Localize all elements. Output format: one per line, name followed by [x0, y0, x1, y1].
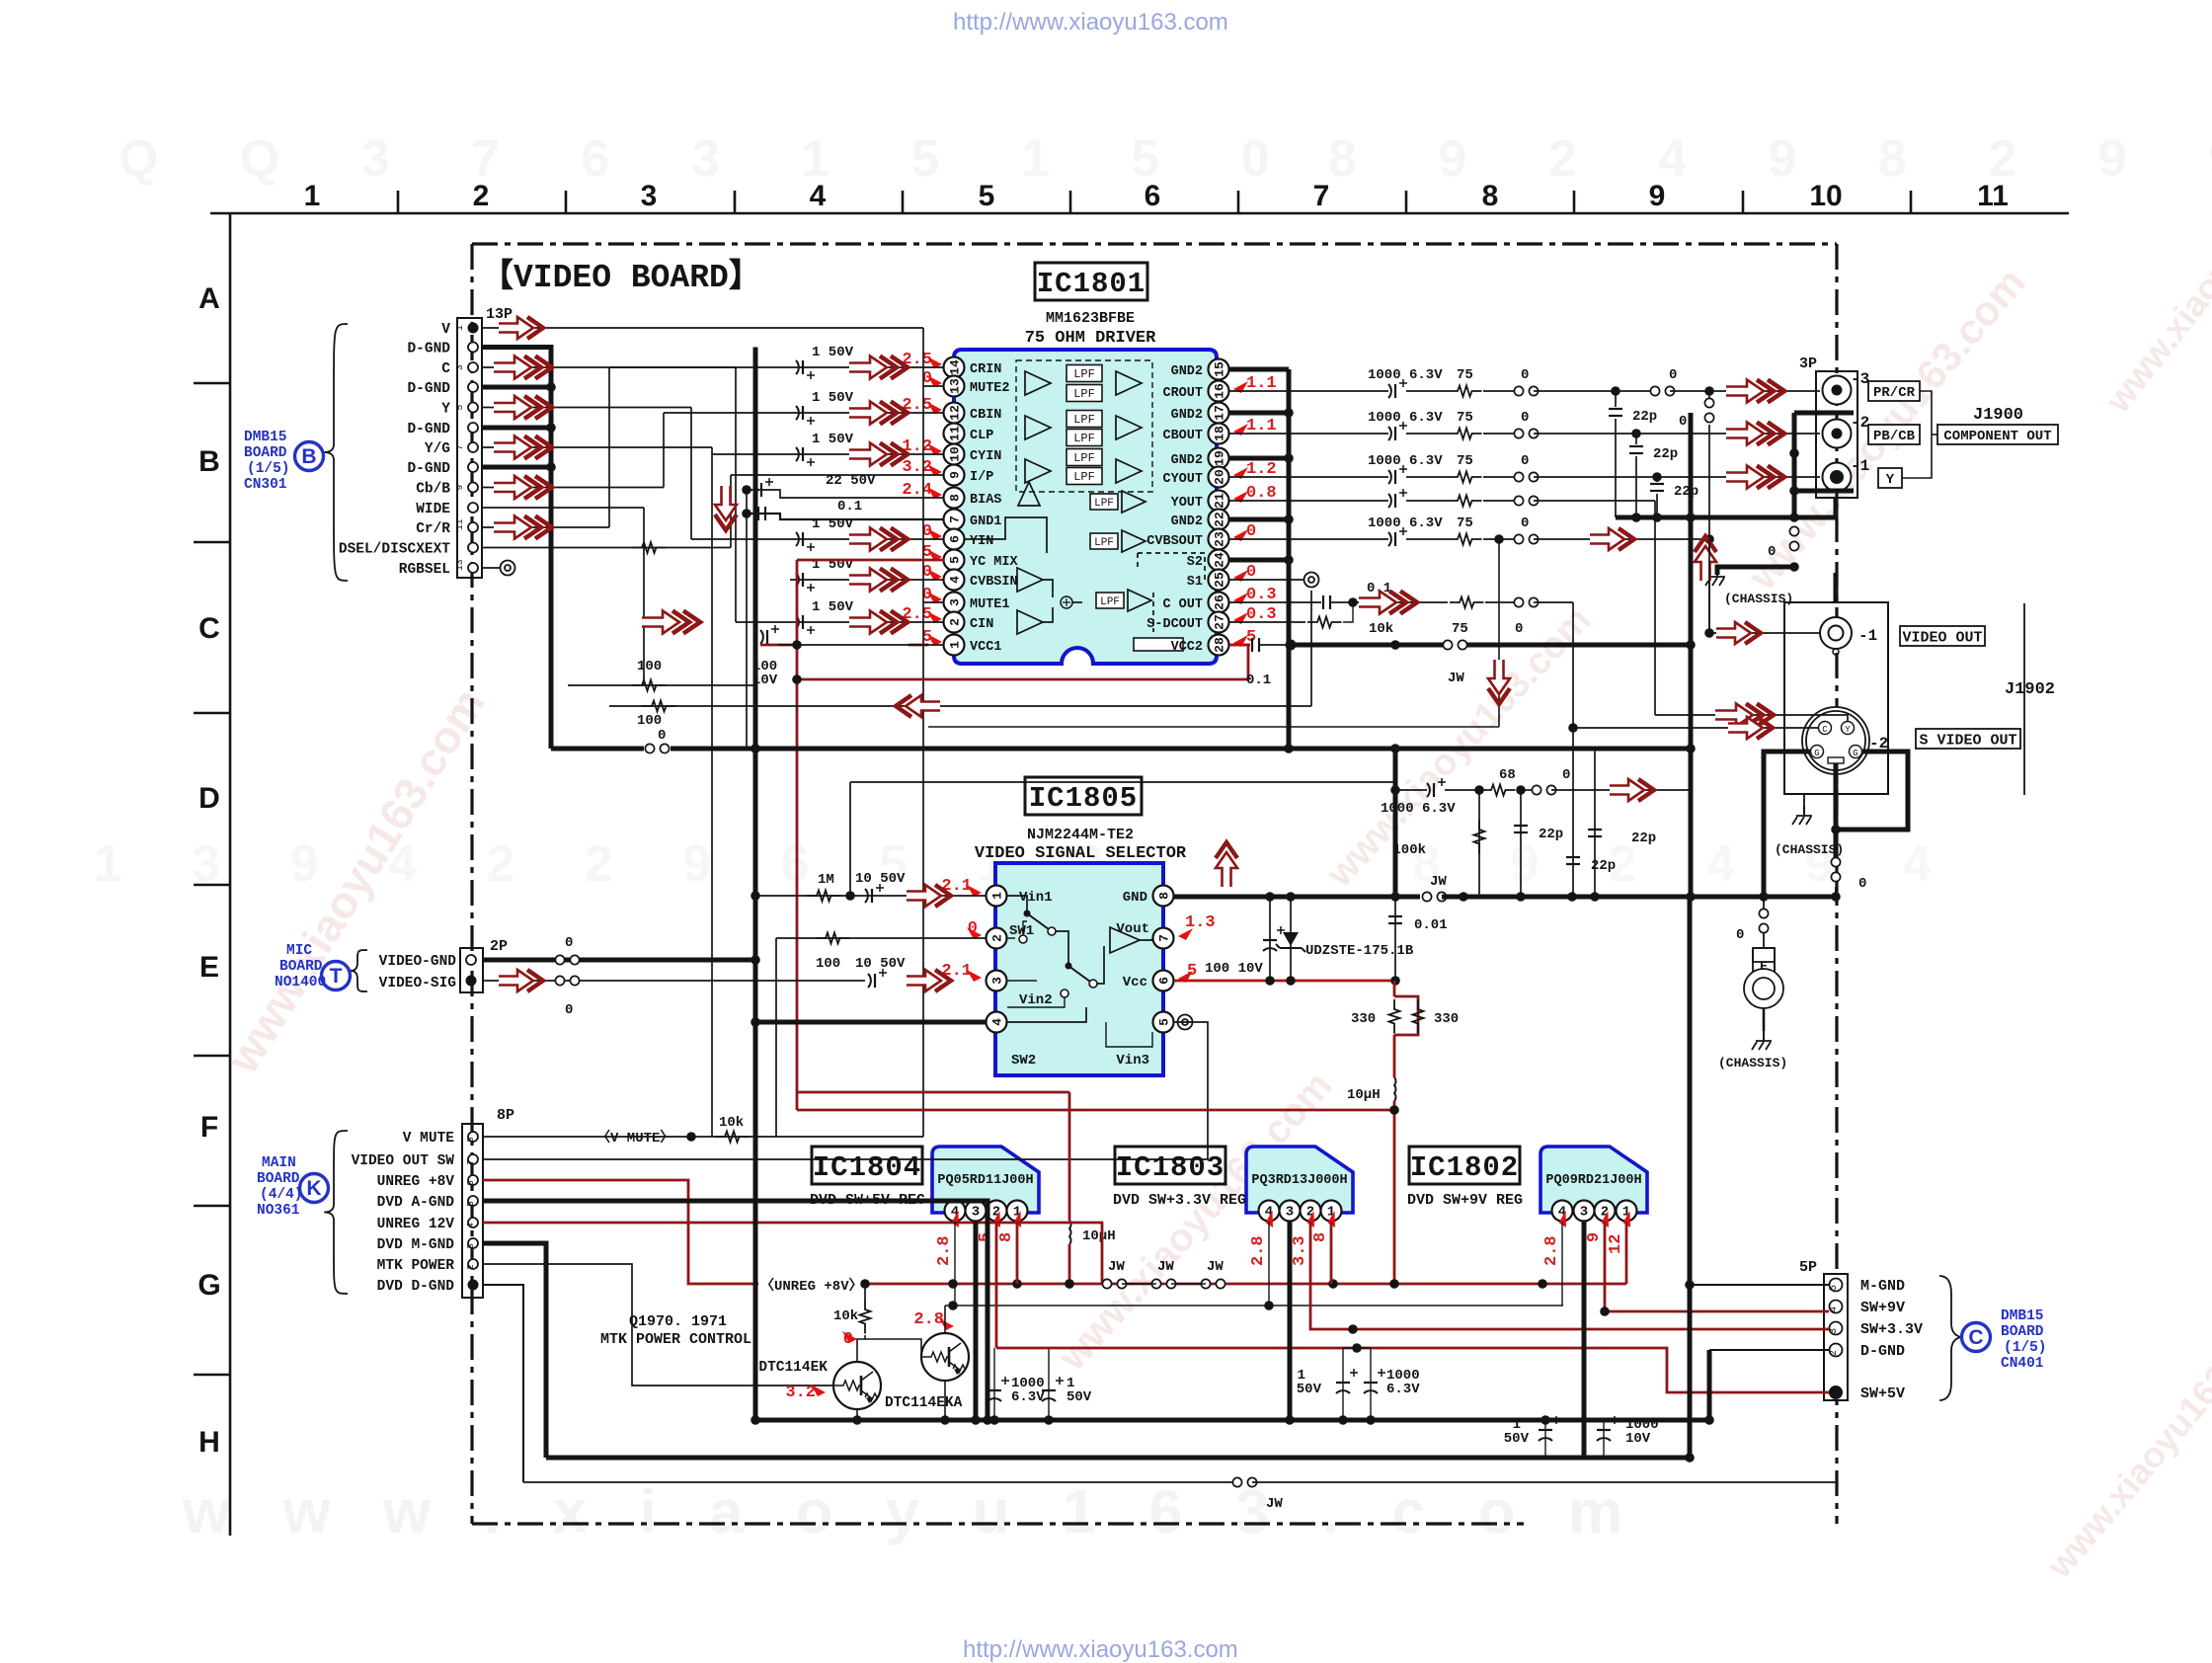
wire bias caps join [746, 490, 748, 519]
svg-text:BIAS: BIAS [970, 493, 1001, 508]
svg-text:7: 7 [948, 515, 963, 523]
chassis ground 3P [1705, 567, 1725, 586]
connector CN401 5P box [1824, 1274, 1848, 1400]
arrow COUT svideo [1728, 717, 1773, 739]
junction 22p bus d [1789, 513, 1799, 522]
wire Vcc red b [1394, 979, 1395, 982]
arrow into pin row 418 [849, 402, 908, 425]
jumper 0 row 758 [645, 744, 669, 752]
wire vin1 up [849, 782, 851, 896]
resistor 1M [807, 891, 841, 902]
svg-text:0: 0 [1679, 414, 1687, 430]
svg-text:100 10V: 100 10V [1205, 961, 1263, 977]
IC1805 switch1 [1024, 911, 1031, 917]
resistor 75 COUT [1450, 597, 1484, 608]
wedge 0 q [842, 1331, 857, 1343]
wire pin5 bullseye [483, 1022, 1208, 1159]
IC1802 pin value wedge 9 [1598, 1211, 1616, 1229]
svg-text:SW+9V: SW+9V [1860, 1300, 1905, 1316]
junction cap1803a [1338, 1415, 1348, 1425]
svg-text:〈V MUTE〉: 〈V MUTE〉 [596, 1130, 673, 1147]
svg-text:B: B [198, 445, 220, 478]
svg-text:C: C [198, 612, 220, 645]
svg-text:BOARD: BOARD [257, 1171, 300, 1187]
wire DSEL to pin9 [731, 474, 944, 476]
resistor 100 b [642, 701, 676, 712]
IC1801 pin 11 [944, 424, 965, 444]
IC1805 pin 3 [987, 971, 1007, 991]
wire YOUT cont [1534, 500, 1655, 502]
wire 3P gnd bus [1792, 413, 1797, 517]
maroon 8P UNREG+8V [483, 1180, 758, 1284]
IC1805 vout wire [1140, 938, 1152, 940]
junction 758 b [1284, 744, 1294, 753]
jumper JW 908 [1422, 892, 1446, 901]
IC1801 pin 3 wedge [927, 592, 942, 603]
IC1803 label box [1115, 1147, 1225, 1184]
wire WIDE vertical [643, 508, 645, 685]
8P pin 5 [468, 1196, 478, 1206]
svg-text:5: 5 [948, 556, 963, 564]
IC1801 pin 27 [1209, 612, 1229, 633]
IC1805 pin1 wedge [967, 885, 982, 897]
J1900 bracket wire [1902, 391, 1932, 478]
svg-text:4: 4 [948, 576, 963, 584]
wire cap row 546 [790, 538, 944, 540]
wire Y to cap [691, 538, 790, 540]
label VIDEO OUT [1900, 626, 1985, 646]
svg-text:8: 8 [1482, 180, 1499, 212]
junction 22p bus a [1631, 513, 1641, 522]
wire Y/G vertical [711, 447, 713, 454]
junction 908 x1786 [1759, 892, 1769, 902]
label COMPONENT OUT [1937, 425, 2058, 444]
wire SDC up [1343, 602, 1353, 622]
wire out row 483 c [1483, 476, 1514, 478]
svg-text:BOARD: BOARD [2001, 1324, 2044, 1340]
capacitor 100 10V mid [1263, 926, 1285, 951]
wire MUTE2 stub [923, 385, 944, 387]
svg-text:MTK POWER: MTK POWER [377, 1258, 455, 1274]
svg-text:MUTE1: MUTE1 [970, 597, 1010, 612]
wire cap row 587 [790, 579, 944, 581]
wire IC1804 pin3 drop [974, 1222, 979, 1420]
wire GND1 cap [747, 514, 944, 519]
wire 10uH down [1393, 1101, 1396, 1284]
junction 758 a [750, 744, 760, 753]
arrow vin1 [907, 885, 951, 907]
8P pin 6 [468, 1175, 478, 1185]
IC1801 LPF box b1 [1066, 430, 1102, 446]
svg-text:WIDE: WIDE [416, 502, 450, 517]
svg-text:NO361: NO361 [257, 1203, 300, 1219]
junction video vertical b [750, 744, 760, 753]
ruler left line [229, 213, 232, 1536]
IC1801 pin 20 wedge [1233, 467, 1248, 479]
svg-text:330: 330 [1351, 1011, 1376, 1027]
svg-text:IC1801: IC1801 [1037, 268, 1145, 300]
IC1802 label box [1409, 1147, 1520, 1184]
svg-text:UNREG +8V: UNREG +8V [377, 1174, 455, 1190]
wire VCC2 row c [1466, 643, 1691, 648]
svg-text:0: 0 [1669, 367, 1677, 383]
junction vcc red b [1286, 976, 1296, 986]
svg-text:V MUTE: V MUTE [403, 1131, 455, 1147]
junction sw2 [750, 1017, 760, 1027]
wire out row 439 c [1483, 433, 1514, 435]
wire row 800 c [1517, 789, 1533, 791]
junction 3P gnd b [1789, 486, 1799, 496]
arrow up 1242 [1216, 842, 1237, 887]
ruler column tick 4 [902, 191, 905, 213]
13P pin 1 [468, 323, 479, 334]
svg-text:D-GND: D-GND [407, 381, 450, 397]
wire IC1802 pin4 drop [1561, 1222, 1563, 1306]
IC1801 pin 14 [944, 357, 965, 378]
jumper 0 comp [1704, 398, 1713, 422]
IC1805 vout amp [1110, 927, 1140, 953]
wire S1 drop [1310, 591, 1312, 706]
junction UNREG x1412 [1389, 1279, 1399, 1289]
IC1801 pin 23 wedge [1233, 529, 1248, 541]
svg-text:VIDEO-GND: VIDEO-GND [379, 954, 457, 970]
svg-text:50V: 50V [1297, 1382, 1322, 1397]
13P brace [324, 324, 348, 581]
junction GND2 567 [1284, 555, 1294, 565]
resistor 10k SDC [1307, 617, 1342, 628]
circled K [300, 1174, 329, 1203]
svg-text:Y/G: Y/G [425, 441, 450, 457]
E chassis terminal [1744, 948, 1783, 1008]
IC1801 amp COUT [1128, 590, 1151, 611]
wire BIAS [747, 490, 944, 498]
svg-text:GND2: GND2 [1171, 408, 1203, 423]
IC1805 sw2 internal [1007, 1007, 1086, 1022]
IC1803 pin 4 [1259, 1201, 1280, 1222]
svg-text:5: 5 [465, 1201, 476, 1207]
8P pin 1 [468, 1280, 479, 1291]
capacitor VCC2 [1252, 638, 1259, 652]
IC1801 pin 25 [1209, 570, 1229, 591]
arrow V row [499, 317, 543, 339]
svg-text:MUTE2: MUTE2 [970, 381, 1010, 396]
label Y [1878, 468, 1902, 488]
resistor 100 a [632, 680, 667, 691]
wire CBOUT cont [1534, 433, 1820, 435]
junction CVBS [1704, 628, 1714, 638]
5P pin 2 [1830, 1344, 1843, 1357]
wire S-DCOUT [1229, 621, 1305, 623]
junction COUT svideo [1568, 723, 1578, 733]
svg-text:D: D [198, 782, 220, 815]
svg-text:1 50V: 1 50V [812, 345, 854, 360]
J1902 bracket [2023, 603, 2025, 795]
wire out row 507 c [1483, 500, 1514, 502]
wire 22p bus [1616, 515, 1837, 520]
svg-text:BOARD: BOARD [279, 959, 323, 975]
svg-text:0: 0 [1521, 453, 1529, 469]
svg-text:IC1805: IC1805 [1029, 782, 1138, 815]
wire svideo top [1834, 573, 1839, 602]
svg-text:w w w . x i a o y u 1 6 3 . c: w w w . x i a o y u 1 6 3 . c o m [182, 1478, 1640, 1546]
IC1801 pin 8 wedge [927, 487, 942, 499]
svg-text:JW: JW [1207, 1259, 1224, 1275]
junction sw9 [1600, 1307, 1610, 1316]
IC1801 amp BIAS [1018, 482, 1040, 506]
wire 22p top 1 [1635, 434, 1637, 444]
IC1801 pin 16 [1209, 381, 1229, 402]
3P RCA jack -1 [1823, 463, 1852, 492]
arrow Y row [494, 396, 552, 419]
wire 100 row b [609, 705, 1311, 707]
svg-text:DVD SW+9V REG: DVD SW+9V REG [1407, 1192, 1523, 1209]
wire CVBS to jack [1709, 632, 1820, 634]
svg-text:50V: 50V [1504, 1431, 1530, 1447]
svg-text:4: 4 [990, 1018, 1005, 1026]
S1 test point [1304, 573, 1319, 588]
IC1801 pin 9 [944, 465, 965, 486]
IC1805 switch2 [1066, 963, 1072, 970]
arrow CYOUT [1726, 466, 1784, 489]
wire out row 396 b [1406, 390, 1448, 392]
arrow into pin row 630 [849, 611, 908, 634]
wire DSEL [482, 547, 731, 549]
IC1801 pin 22 [1209, 510, 1229, 530]
svg-text:〈UNREG +8V〉: 〈UNREG +8V〉 [760, 1278, 863, 1295]
svg-text:2.8: 2.8 [1542, 1235, 1561, 1266]
svg-text:22p: 22p [1653, 446, 1678, 462]
GND bus row 908 b [1442, 895, 1837, 900]
wire 3P box drop [1834, 498, 1839, 517]
IC1801 body [954, 350, 1217, 664]
IC1803 pin 1 [1321, 1201, 1342, 1222]
svg-text:JW: JW [1266, 1496, 1283, 1512]
svg-text:2: 2 [473, 180, 490, 212]
wire YC MIX maroon [797, 559, 944, 562]
jumper 0 row800 [1532, 785, 1555, 794]
capacitor 1000 6.3V row800 [1427, 778, 1446, 797]
capacitor 1uF row 418 [796, 406, 815, 425]
wire V MUTE [483, 1136, 923, 1138]
IC1801 pin 7 [944, 510, 965, 530]
wire GND row 758 right [1395, 747, 1691, 752]
wire YOUT to svideo [1655, 715, 1848, 722]
svg-text:Cb/B: Cb/B [416, 482, 450, 498]
junction 908 x1859 [1831, 892, 1841, 902]
maroon IC1803 pin2 drop [1310, 1222, 1829, 1329]
IC1801 pin 26 [1209, 593, 1229, 613]
svg-text:MM1623BFBE: MM1623BFBE [1046, 310, 1135, 327]
board border right [1835, 244, 1838, 1524]
svg-text:LPF: LPF [1073, 387, 1095, 401]
chassis ground top right [1792, 806, 1812, 825]
maroon v 1083 [1068, 1092, 1071, 1221]
5P pin 5 [1830, 1279, 1843, 1292]
svg-text:6: 6 [1145, 180, 1161, 212]
svg-text:68: 68 [1499, 767, 1516, 783]
IC1801 pin 17 [1209, 403, 1229, 424]
capacitor 1 50V 1804 [1042, 1377, 1064, 1401]
svg-text:10μH: 10μH [1082, 1228, 1116, 1244]
svg-text:100: 100 [816, 956, 840, 972]
wire svideo center [1834, 763, 1839, 857]
wire IC1803 pin3 drop [1288, 1222, 1293, 1420]
13P pin 9 [468, 483, 478, 493]
capacitor 10 50V vin1 [865, 884, 884, 903]
13P pin 3 [468, 362, 478, 372]
wire bias caps down [746, 519, 748, 749]
svg-text:1 50V: 1 50V [812, 390, 854, 406]
IC1801 LPF COUT [1096, 593, 1124, 608]
wire CVBSOUT cont [1534, 538, 1709, 540]
svg-text:UDZSTE-175.1B: UDZSTE-175.1B [1305, 943, 1414, 959]
wire 3P gnd stub a [1794, 411, 1854, 416]
IC1801 pin 4 wedge [927, 569, 942, 581]
IC1801 pin 1 [944, 635, 965, 656]
resistor DSEL [632, 542, 667, 553]
ruler column tick 5 [1069, 191, 1072, 213]
svg-text:8: 8 [1157, 892, 1172, 900]
IC1804 body [932, 1147, 1039, 1213]
svg-text:PR/CR: PR/CR [1873, 385, 1916, 401]
8P pin 7 [468, 1154, 478, 1164]
svg-text:G: G [1814, 749, 1819, 758]
IC1802 pin value wedge 12 [1619, 1211, 1637, 1229]
board border left [470, 244, 473, 1524]
svg-text:JW: JW [1108, 1259, 1125, 1275]
video out RCA jack [1820, 617, 1852, 655]
svg-text:10k: 10k [1369, 621, 1393, 637]
wire 330 down [1393, 1035, 1396, 1077]
wire q2 emitter [944, 1381, 946, 1420]
junction CROUT a [1611, 386, 1620, 396]
svg-text:LPF: LPF [1073, 413, 1095, 427]
svg-text:S-DCOUT: S-DCOUT [1146, 617, 1203, 632]
IC1801 input amp row 433 [1025, 416, 1051, 439]
svg-text:BOARD: BOARD [244, 445, 287, 461]
wire D-GND pin 392 [482, 385, 551, 390]
ruler column tick 10 [1910, 191, 1913, 213]
junction 908 x1615 [1590, 892, 1600, 902]
wire GND2 pin row 464 [1229, 456, 1289, 461]
resistor 75 row 507 [1448, 496, 1482, 507]
wire VIDEO-GND [483, 958, 755, 963]
wire 22p bottom 2 [1656, 494, 1658, 517]
svg-text:11: 11 [1977, 180, 2009, 212]
capacitor 1000 row 396 [1388, 379, 1407, 398]
IC1805 pin6 wedge [1178, 971, 1193, 983]
capacitor 0.01 [1388, 916, 1402, 923]
wire YOUT vertical [1654, 501, 1656, 715]
svg-text:S1: S1 [1187, 575, 1203, 590]
IC1804 pin value wedge 2.8 [948, 1211, 966, 1229]
wire cap100 vertical [1269, 897, 1271, 980]
svg-text:H: H [198, 1426, 220, 1459]
svg-text:1000 6.3V: 1000 6.3V [1381, 801, 1456, 817]
svg-text:10V: 10V [1625, 1431, 1651, 1447]
capacitor 1uF row 546 [796, 532, 815, 551]
capacitor 1000 6.3V 1803 [1364, 1369, 1385, 1393]
wire out row 483 b [1406, 476, 1448, 478]
capacitor 1000 row 507 [1388, 489, 1407, 508]
junction video vertical [750, 955, 760, 965]
wire q2 collector [944, 1306, 946, 1333]
IC1801 pin 15 [1209, 359, 1229, 380]
junction IC1804 pin3 [971, 1415, 981, 1425]
svg-text:J1902: J1902 [2005, 680, 2055, 699]
capacitor 1uF row 630 [796, 615, 815, 634]
svg-text:100: 100 [637, 713, 662, 729]
svg-text:CYOUT: CYOUT [1162, 472, 1203, 487]
svg-text:LPF: LPF [1073, 451, 1095, 465]
IC1801 pin 13 [944, 376, 965, 397]
arrow left row b [896, 695, 940, 717]
IC1801 pin 6 [944, 529, 965, 550]
IC1801 pin 12 wedge [927, 402, 942, 414]
IC1801 pin 16 wedge [1233, 381, 1248, 393]
svg-text:1M: 1M [818, 872, 834, 888]
junction mgnd b [1685, 1453, 1695, 1463]
svg-text:E: E [199, 951, 219, 984]
svg-text:7: 7 [1157, 934, 1172, 942]
IC1801 internal dashed box [1016, 360, 1152, 492]
IC1801 mixer node [1061, 596, 1072, 608]
8P brace [324, 1131, 348, 1294]
5P brace [1939, 1276, 1961, 1400]
jumper 0 COUT [1514, 597, 1538, 606]
wire row 800 d [1551, 789, 1691, 791]
IC1801 output amp row 388 [1116, 371, 1142, 395]
svg-text:13P: 13P [486, 306, 513, 323]
wire svideo chassis stub [1803, 794, 1805, 814]
connector NO361 8P box [462, 1124, 483, 1298]
svg-text:330: 330 [1434, 1011, 1459, 1027]
junction q2 emitter [940, 1415, 950, 1425]
svg-text:22p: 22p [1539, 827, 1563, 842]
wire cap 1802b [1603, 1420, 1605, 1458]
13P pin 11 [468, 522, 478, 532]
jumper JW mid 1 [1151, 1279, 1175, 1288]
svg-text:5: 5 [454, 405, 465, 411]
maroon IC1802 pin1 drop [1625, 1222, 1628, 1284]
connector NO1400 2P box [460, 948, 483, 992]
svg-text:1000 6.3V: 1000 6.3V [1368, 515, 1443, 531]
jumper JW VCC2 [1443, 640, 1466, 649]
svg-text:10k: 10k [833, 1308, 858, 1324]
svg-text:0: 0 [1521, 410, 1529, 426]
IC1805 pin 4 [987, 1012, 1007, 1033]
8P pin 3 [468, 1238, 478, 1248]
wire GND2 pin row 567 [1229, 558, 1289, 563]
IC1805 pin 7 [1153, 928, 1174, 949]
ruler column tick 9 [1742, 191, 1745, 213]
junction D-GND 473 [546, 462, 556, 472]
wire D-GND bus [482, 348, 551, 750]
svg-text:22p: 22p [1674, 484, 1698, 500]
svg-text:JW: JW [1448, 671, 1464, 686]
junction 1413 758 [1390, 744, 1400, 753]
jumper 0 row 546 [1514, 534, 1538, 543]
svg-text:LPF: LPF [1094, 537, 1114, 549]
IC1805 body [995, 863, 1163, 1075]
IC1805 pin3 wedge [967, 970, 982, 982]
svg-text:VIDEO OUT: VIDEO OUT [1902, 629, 1982, 646]
ruler column tick 7 [1405, 191, 1408, 213]
13P pin 7 [468, 442, 478, 452]
junction UNREG x1030 [1012, 1279, 1022, 1289]
IC1801 output amp row 477 [1116, 459, 1142, 483]
IC1801 pin 5 [944, 550, 965, 571]
